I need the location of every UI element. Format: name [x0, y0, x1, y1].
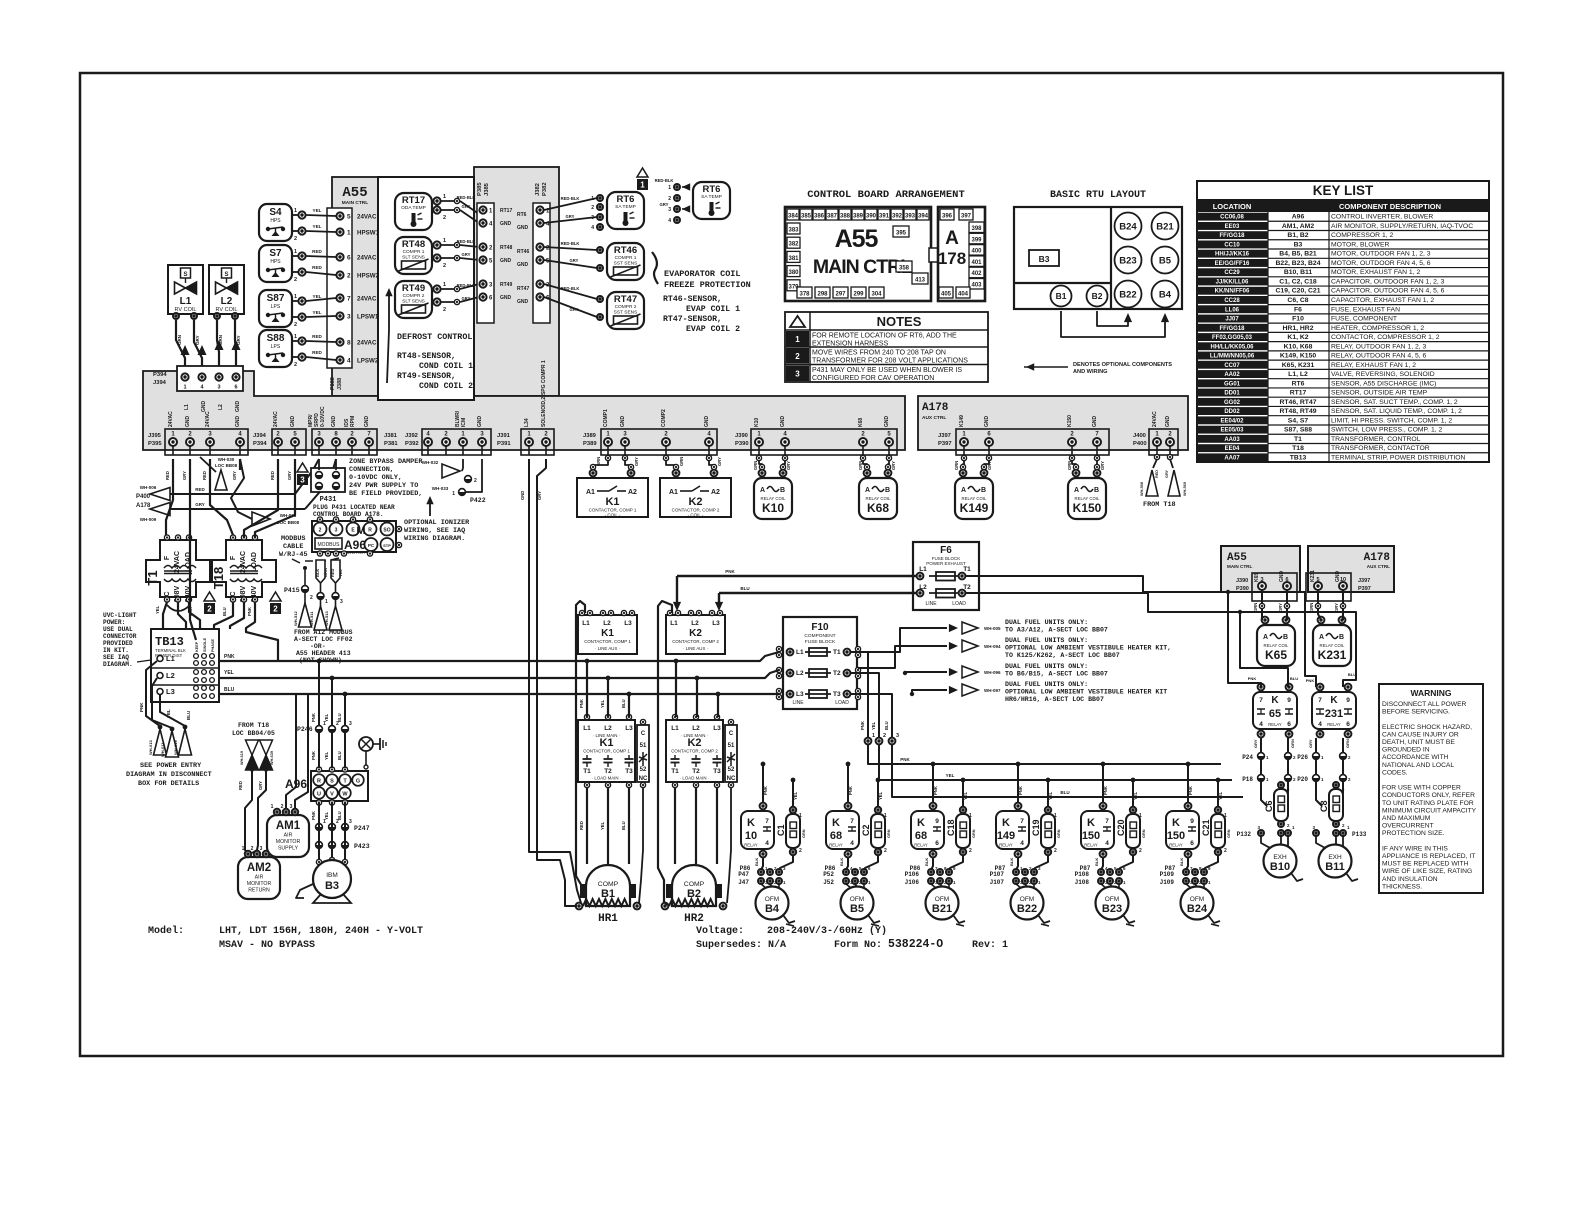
- connector row 378-304: [797, 287, 812, 298]
- svg-text:P18: P18: [1242, 776, 1253, 783]
- svg-text:PNK: PNK: [763, 786, 768, 795]
- wire C2 out: [865, 856, 878, 870]
- board link connector: [929, 248, 940, 262]
- svg-text:K2: K2: [689, 628, 702, 639]
- svg-text:K2: K2: [688, 496, 702, 508]
- svg-text:LHT, LDT 156H, 180H, 240H - Y-: LHT, LDT 156H, 180H, 240H - Y-VOLT: [219, 926, 423, 937]
- svg-text:10: 10: [745, 830, 757, 842]
- svg-text:PNK: PNK: [725, 569, 735, 574]
- svg-text:P395: P395: [148, 441, 162, 447]
- svg-text:AM1: AM1: [276, 820, 301, 832]
- svg-text:WH-011: WH-011: [160, 742, 165, 757]
- svg-text:L1: L1: [670, 620, 678, 627]
- svg-text:GRN: GRN: [954, 461, 959, 470]
- svg-text:51: 51: [728, 743, 735, 749]
- svg-text:F6: F6: [940, 545, 952, 556]
- svg-text:7: 7: [347, 296, 351, 303]
- svg-text:WARNING: WARNING: [1410, 688, 1451, 698]
- svg-text:YEL: YEL: [166, 709, 171, 718]
- svg-text:2: 2: [310, 595, 313, 601]
- svg-text:CAPACITOR, OUTDOOR FAN 4, 5, 6: CAPACITOR, OUTDOOR FAN 4, 5, 6: [1331, 288, 1445, 295]
- svg-text:YEL: YEL: [793, 791, 798, 800]
- svg-text:B1: B1: [601, 888, 615, 900]
- svg-text:J397: J397: [1358, 578, 1370, 584]
- svg-text:2: 2: [273, 605, 278, 614]
- svg-text:DEFROST CONTROL: DEFROST CONTROL: [397, 332, 472, 342]
- svg-text:WH-512: WH-512: [293, 611, 298, 626]
- svg-text:BLK: BLK: [1094, 858, 1099, 866]
- svg-text:HR2: HR2: [684, 913, 704, 925]
- svg-text:WH-019: WH-019: [173, 740, 178, 755]
- svg-text:F: F: [164, 555, 171, 560]
- svg-text:GRY: GRY: [566, 214, 575, 219]
- svg-text:YEL: YEL: [324, 811, 329, 820]
- T1 secondary wires: [163, 602, 167, 629]
- note marker 1: [637, 168, 648, 177]
- svg-text:F10: F10: [1292, 316, 1304, 323]
- fan relay K150 for B23: [1081, 811, 1114, 849]
- harness arrow WH-033 S-wire: [231, 459, 252, 519]
- svg-text:J389: J389: [583, 433, 597, 439]
- svg-text:GRN: GRN: [1057, 829, 1061, 838]
- svg-text:LPSW1: LPSW1: [357, 314, 379, 321]
- svg-text:1: 1: [799, 813, 802, 819]
- svg-text:T1: T1: [145, 570, 160, 585]
- svg-text:GRY: GRY: [195, 335, 200, 345]
- svg-text:GND: GND: [884, 416, 890, 428]
- transformer T18: [212, 540, 276, 597]
- svg-text:T2: T2: [833, 670, 841, 677]
- svg-text:K2: K2: [687, 737, 701, 749]
- svg-text:B: B: [885, 487, 890, 494]
- svg-text:L1, L2: L1, L2: [1288, 371, 1308, 378]
- svg-text:S7: S7: [269, 248, 282, 259]
- L1 pins: [173, 313, 179, 319]
- svg-text:RT49: RT49: [402, 283, 425, 294]
- svg-text:P109: P109: [1160, 871, 1175, 878]
- svg-text:B: B: [1283, 634, 1288, 641]
- svg-text:RELAY, OUTDOOR FAN 4, 5, 6: RELAY, OUTDOOR FAN 4, 5, 6: [1331, 353, 1427, 360]
- svg-text:COMPR 1: COMPR 1: [403, 249, 425, 255]
- svg-text:K1: K1: [601, 628, 614, 639]
- svg-text:GRN: GRN: [887, 829, 891, 838]
- svg-text:K: K: [1087, 817, 1095, 829]
- svg-text:BLU: BLU: [186, 711, 191, 720]
- svg-text:7: 7: [765, 818, 769, 825]
- svg-text:YEL: YEL: [324, 713, 329, 722]
- capacitor C21: [1211, 814, 1225, 848]
- svg-text:GRY: GRY: [717, 457, 722, 466]
- svg-text:PNK: PNK: [1306, 678, 1315, 683]
- svg-text:P423: P423: [354, 843, 370, 850]
- svg-text:AA03: AA03: [1224, 437, 1240, 443]
- svg-text:RT6: RT6: [517, 212, 527, 218]
- A96 top ports: [314, 523, 327, 536]
- svg-text:HPS: HPS: [270, 218, 281, 224]
- svg-text:MOTOR, OUTDOOR FAN 4, 5, 6: MOTOR, OUTDOOR FAN 4, 5, 6: [1331, 260, 1431, 267]
- wire K68 out: [931, 858, 933, 870]
- svg-text:WH-030: WH-030: [218, 457, 235, 462]
- svg-text:J395: J395: [148, 433, 162, 439]
- svg-text:Model:: Model:: [148, 925, 184, 937]
- wire C19 out: [1035, 856, 1048, 870]
- svg-text:WH-006: WH-006: [140, 485, 157, 490]
- svg-text:A1: A1: [586, 489, 595, 496]
- svg-text:6: 6: [1346, 721, 1350, 728]
- svg-text:2: 2: [884, 848, 887, 854]
- svg-text:K10: K10: [754, 418, 760, 427]
- svg-text:4: 4: [1318, 721, 1322, 728]
- wire feed C2: [877, 780, 879, 806]
- svg-text:GRN: GRN: [1227, 829, 1231, 838]
- svg-text:RED-BLK: RED-BLK: [561, 286, 580, 291]
- svg-text:CONTACTOR, COMP 2: CONTACTOR, COMP 2: [671, 749, 718, 754]
- svg-text:24VAC: 24VAC: [357, 296, 377, 303]
- svg-text:RT46, RT47: RT46, RT47: [1279, 399, 1316, 406]
- svg-text:MAIN CTRL: MAIN CTRL: [342, 200, 368, 206]
- fan relay K68 for B21: [911, 811, 944, 849]
- A96 lower ports: [313, 774, 325, 786]
- svg-text:AIR MONITOR, SUPPLY/RETURN, IA: AIR MONITOR, SUPPLY/RETURN, IAQ-TVOC: [1331, 223, 1473, 230]
- svg-text:3: 3: [795, 370, 800, 379]
- svg-text:P107: P107: [990, 871, 1005, 878]
- svg-text:WH-511: WH-511: [309, 611, 314, 626]
- svg-text:COMP: COMP: [598, 881, 619, 888]
- svg-text:T1: T1: [833, 649, 841, 656]
- fan relay K149 for B22: [996, 811, 1029, 849]
- svg-text:ACCORDANCE WITH: ACCORDANCE WITH: [1382, 754, 1449, 761]
- svg-text:WIRING DIAGRAM.: WIRING DIAGRAM.: [404, 535, 465, 543]
- svg-text:MOTOR, BLOWER: MOTOR, BLOWER: [1331, 241, 1389, 248]
- fan relay K150 for B24: [1166, 811, 1199, 849]
- svg-text:GRY: GRY: [195, 502, 205, 507]
- svg-text:GRN: GRN: [972, 829, 976, 838]
- svg-text:GND: GND: [620, 416, 626, 428]
- svg-text:WH-513: WH-513: [324, 611, 329, 626]
- pressure switch S4: [259, 204, 292, 241]
- svg-text:STP: STP: [383, 543, 391, 548]
- svg-text:GND: GND: [517, 225, 529, 231]
- svg-text:T3: T3: [625, 768, 633, 775]
- svg-text:1: 1: [1139, 813, 1142, 819]
- wire K150 out: [1186, 858, 1188, 870]
- svg-text:K65: K65: [1265, 648, 1287, 662]
- svg-text:OFM: OFM: [1020, 896, 1034, 903]
- defrost arrow: [387, 292, 389, 383]
- svg-text:S: S: [330, 779, 334, 785]
- svg-text:GND: GND: [520, 491, 525, 500]
- L2 pins: [214, 313, 220, 319]
- svg-text:L1: L1: [583, 725, 591, 732]
- svg-text:3: 3: [300, 476, 305, 485]
- svg-text:299: 299: [853, 292, 864, 298]
- svg-text:GRN: GRN: [1290, 739, 1295, 748]
- svg-text:384: 384: [788, 214, 799, 220]
- svg-text:GRY: GRY: [462, 252, 471, 257]
- svg-text:1: 1: [969, 813, 972, 819]
- svg-text:GND: GND: [500, 295, 512, 301]
- svg-text:RT48: RT48: [402, 239, 425, 250]
- svg-text:BLU: BLU: [1290, 676, 1298, 681]
- svg-text:WH-032: WH-032: [422, 460, 439, 465]
- svg-text:CONTROL BOARD ARRANGEMENT: CONTROL BOARD ARRANGEMENT: [807, 189, 965, 201]
- svg-text:413: 413: [915, 278, 926, 284]
- wire C20 out: [1120, 856, 1133, 870]
- svg-text:L1: L1: [166, 654, 175, 663]
- svg-text:FROM A12 MODBUS: FROM A12 MODBUS: [294, 629, 353, 636]
- svg-text:AM1, AM2: AM1, AM2: [1282, 223, 1314, 230]
- svg-text:9: 9: [1190, 818, 1194, 825]
- svg-text:LPS: LPS: [271, 344, 281, 350]
- svg-text:B5: B5: [1159, 256, 1172, 267]
- svg-text:BLU: BLU: [621, 821, 626, 830]
- svg-text:BLU: BLU: [740, 586, 749, 591]
- svg-text:A: A: [760, 487, 765, 494]
- svg-text:L1: L1: [671, 725, 679, 732]
- svg-text:P400: P400: [136, 494, 151, 500]
- svg-text:1: 1: [1054, 813, 1057, 819]
- svg-text:5: 5: [347, 214, 351, 221]
- svg-text:P422: P422: [470, 497, 486, 504]
- svg-text:L3: L3: [796, 691, 804, 698]
- svg-text:1: 1: [325, 599, 328, 605]
- rtu bracket arrows: [1097, 311, 1128, 326]
- svg-text:404: 404: [958, 292, 969, 298]
- svg-text:3: 3: [347, 314, 351, 321]
- svg-text:393: 393: [905, 214, 916, 220]
- note marker 3: [297, 463, 308, 472]
- svg-text:1: 1: [452, 491, 455, 497]
- svg-text:L3: L3: [625, 725, 633, 732]
- svg-text:B4: B4: [765, 903, 780, 915]
- key list table: [1197, 181, 1489, 462]
- svg-text:DD02: DD02: [1224, 409, 1240, 415]
- svg-text:RED-BLK: RED-BLK: [561, 196, 580, 201]
- svg-text:GND: GND: [500, 258, 512, 264]
- svg-text:F10: F10: [811, 622, 829, 633]
- svg-text:3: 3: [335, 528, 338, 534]
- svg-text:GND: GND: [984, 416, 990, 428]
- svg-text:EE04: EE04: [1225, 446, 1240, 452]
- svg-text:RELAY: RELAY: [829, 843, 843, 848]
- svg-text:RELAY: RELAY: [744, 843, 758, 848]
- svg-text:B22, B23, B24: B22, B23, B24: [1276, 260, 1321, 267]
- svg-text:P397: P397: [938, 441, 952, 447]
- svg-text:YEL: YEL: [600, 821, 605, 830]
- svg-text:4: 4: [1105, 840, 1109, 847]
- svg-text:RELAY: RELAY: [1169, 843, 1183, 848]
- svg-text:MINIMUM CIRCUIT AMPACITY: MINIMUM CIRCUIT AMPACITY: [1382, 807, 1477, 814]
- svg-text:L3: L3: [166, 687, 175, 696]
- svg-text:VALVE, REVERSING, SOLENOID: VALVE, REVERSING, SOLENOID: [1331, 371, 1435, 378]
- svg-text:51: 51: [640, 743, 647, 749]
- svg-text:A96: A96: [285, 777, 307, 791]
- capacitor C19: [1041, 814, 1055, 848]
- svg-text:WIRING, SEE IAQ: WIRING, SEE IAQ: [404, 527, 465, 535]
- svg-text:24VAC: 24VAC: [1152, 411, 1158, 427]
- svg-text:GRY: GRY: [182, 471, 187, 480]
- svg-text:LOAD: LOAD: [952, 601, 966, 607]
- svg-text:AM2: AM2: [247, 862, 271, 874]
- svg-text:P385: P385: [477, 182, 483, 196]
- svg-text:BLU: BLU: [884, 721, 889, 730]
- svg-text:B23: B23: [1119, 256, 1136, 267]
- svg-text:SOLENOID,2-SPG COMPR 1: SOLENOID,2-SPG COMPR 1: [541, 360, 547, 427]
- svg-text:L2: L2: [796, 670, 804, 677]
- svg-text:398: 398: [971, 226, 982, 232]
- svg-text:5: 5: [1316, 577, 1319, 583]
- svg-text:PNK: PNK: [1248, 676, 1257, 681]
- svg-text:WH-013: WH-013: [148, 740, 153, 755]
- svg-text:PNK: PNK: [933, 786, 938, 795]
- svg-text:COMPR 1: COMPR 1: [615, 255, 637, 261]
- svg-text:1: 1: [795, 335, 800, 344]
- svg-text:LIMIT, HI PRESS. SWITCH, COMP.: LIMIT, HI PRESS. SWITCH, COMP. 1, 2: [1331, 417, 1452, 424]
- svg-text:RT48-SENSOR,: RT48-SENSOR,: [397, 352, 456, 361]
- svg-text:GND: GND: [235, 416, 241, 428]
- svg-text:24V PWR SUPPLY TO: 24V PWR SUPPLY TO: [349, 482, 418, 490]
- svg-text:· LOAD MAIN ·: · LOAD MAIN ·: [680, 776, 710, 781]
- wire C21 out: [1205, 856, 1218, 870]
- svg-text:A178: A178: [922, 402, 949, 414]
- svg-text:24VAC: 24VAC: [168, 411, 174, 427]
- svg-text:395: 395: [896, 231, 907, 237]
- dual fuel note WH-096: [949, 668, 958, 676]
- svg-text:GND: GND: [780, 416, 786, 428]
- svg-text:V: V: [330, 792, 334, 798]
- svg-text:J400: J400: [1133, 433, 1146, 439]
- wire A96 to B3: [318, 803, 320, 862]
- svg-text:IF ANY WIRE IN THIS: IF ANY WIRE IN THIS: [1382, 845, 1448, 852]
- svg-text:J392: J392: [405, 433, 418, 439]
- svg-text:PNK: PNK: [311, 713, 316, 722]
- svg-text:K1: K1: [605, 496, 619, 508]
- svg-text:GND: GND: [500, 221, 512, 227]
- svg-text:SLT SENS: SLT SENS: [402, 299, 425, 305]
- svg-text:T18: T18: [211, 567, 226, 589]
- svg-text:B11: B11: [1325, 861, 1345, 873]
- K1 load wires: [586, 788, 588, 864]
- svg-text:P400: P400: [1133, 441, 1147, 447]
- svg-text:6: 6: [1190, 840, 1194, 847]
- svg-text:B2: B2: [1092, 291, 1103, 301]
- relay coil K65: [1257, 625, 1295, 666]
- svg-text:A55 HEADER 413: A55 HEADER 413: [296, 650, 351, 657]
- rtu fan B24: [1115, 213, 1142, 240]
- svg-text:RED-BLK: RED-BLK: [561, 241, 580, 246]
- svg-text:C1, C2, C18: C1, C2, C18: [1279, 278, 1317, 285]
- svg-text:BLK: BLK: [1179, 858, 1184, 866]
- svg-text:231: 231: [1325, 708, 1343, 720]
- terminal strip TB13: [151, 629, 219, 702]
- svg-text:208-240V/3-/60Hz (Y): 208-240V/3-/60Hz (Y): [767, 925, 887, 937]
- svg-text:J390: J390: [1236, 578, 1248, 584]
- svg-text:K: K: [1330, 695, 1338, 706]
- svg-text:GRY: GRY: [258, 781, 263, 790]
- svg-text:B24: B24: [1119, 222, 1137, 233]
- svg-text:THICKNESS.: THICKNESS.: [1382, 883, 1422, 890]
- svg-text:IN KIT.: IN KIT.: [103, 647, 129, 654]
- svg-text:LL/MM/NN05,06: LL/MM/NN05,06: [1210, 354, 1255, 360]
- rtu fan B21: [1152, 213, 1179, 240]
- svg-text:YEL: YEL: [313, 224, 322, 229]
- svg-text:A: A: [945, 228, 959, 249]
- svg-text:J381: J381: [384, 433, 398, 439]
- connector 405: [939, 287, 953, 298]
- svg-text:R: R: [317, 779, 321, 785]
- svg-text:OFM: OFM: [850, 896, 864, 903]
- svg-text:1: 1: [294, 249, 297, 255]
- inverter A96 lower box: [311, 771, 368, 801]
- relay coil K231: [1313, 625, 1351, 666]
- svg-text:CAPACITOR, OUTDOOR FAN 1, 2, 3: CAPACITOR, OUTDOOR FAN 1, 2, 3: [1331, 278, 1445, 285]
- svg-text:A55: A55: [1227, 552, 1247, 564]
- svg-text:DD01: DD01: [1224, 391, 1240, 397]
- fan relay K10 for B4: [741, 811, 774, 849]
- svg-text:1: 1: [271, 804, 274, 810]
- svg-text:YEL: YEL: [878, 791, 883, 800]
- contactor K1 line aux: [578, 615, 637, 654]
- svg-text:B3: B3: [325, 880, 339, 892]
- svg-text:J107: J107: [990, 879, 1005, 886]
- left long wires: [166, 459, 173, 535]
- fan relay K68 for B5: [826, 811, 859, 849]
- svg-text:WH-096: WH-096: [984, 670, 1001, 675]
- K2 aux wire: [727, 788, 731, 903]
- svg-text:JJ07: JJ07: [1225, 317, 1239, 323]
- svg-text:B21: B21: [932, 903, 952, 915]
- svg-text:Supersedes: N/A: Supersedes: N/A: [696, 939, 786, 951]
- svg-text:BOX FOR DETAILS: BOX FOR DETAILS: [138, 780, 199, 788]
- svg-text:P108: P108: [1075, 871, 1090, 878]
- connector 404: [956, 287, 970, 298]
- svg-text:PROTECTION SIZE.: PROTECTION SIZE.: [1382, 830, 1445, 837]
- A96 lower pins: [316, 800, 321, 805]
- svg-text:GROUNDED IN: GROUNDED IN: [1382, 747, 1430, 754]
- K2 main drops: [675, 661, 677, 717]
- outdoor fan motor B22: [1016, 884, 1021, 888]
- svg-text:2: 2: [319, 528, 322, 534]
- connector 396: [940, 209, 954, 220]
- svg-text:2: 2: [294, 322, 297, 328]
- svg-text:A178: A178: [136, 503, 151, 509]
- svg-text:3: 3: [217, 385, 220, 391]
- inverter A96 modbus box: [312, 521, 396, 552]
- svg-text:2: 2: [281, 804, 284, 810]
- fan bus blu: [892, 745, 1243, 797]
- svg-text:YEL: YEL: [313, 208, 322, 213]
- svg-text:CONNECTOR: CONNECTOR: [103, 633, 137, 640]
- svg-text:EE/GG/FF16: EE/GG/FF16: [1215, 261, 1250, 267]
- svg-text:· LINE AUX ·: · LINE AUX ·: [683, 646, 708, 651]
- svg-text:2: 2: [443, 215, 446, 221]
- svg-text:L1: L1: [582, 620, 590, 627]
- T18 bowties: [246, 740, 259, 755]
- connector row 384-394: [787, 209, 799, 220]
- svg-text:PNK: PNK: [900, 757, 910, 762]
- svg-text:COMP1: COMP1: [603, 409, 609, 427]
- svg-text:C1: C1: [776, 824, 786, 836]
- reversing valve solenoid L1: [168, 265, 203, 314]
- wire K10 out: [761, 858, 763, 870]
- svg-text:4: 4: [347, 358, 351, 365]
- svg-text:K1, K2: K1, K2: [1287, 334, 1308, 341]
- svg-text:4: 4: [1259, 721, 1263, 728]
- svg-text:GRY: GRY: [462, 296, 471, 301]
- note marker 2 at T18: [270, 592, 281, 601]
- svg-text:L3: L3: [624, 620, 632, 627]
- svg-text:GND: GND: [477, 416, 483, 428]
